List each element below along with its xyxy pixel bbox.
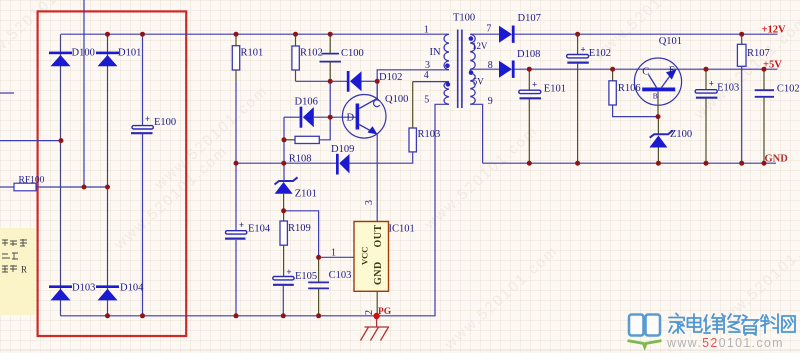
svg-text:9: 9: [488, 96, 493, 107]
svg-text:D108: D108: [517, 49, 540, 60]
primary winding IN pins 1-3: [444, 34, 449, 70]
svg-text:R103: R103: [418, 129, 441, 140]
wire: D100 column: [60, 34, 62, 316]
logo title char 1 jia: [669, 314, 684, 334]
transistor Q100: [342, 81, 408, 138]
svg-text:+: +: [581, 44, 586, 54]
svg-text:B: B: [653, 92, 658, 101]
svg-text:C: C: [642, 66, 649, 77]
secondary 5V winding: [470, 69, 475, 104]
resistor R107: [737, 34, 769, 163]
capacitor E102: [567, 34, 611, 163]
capacitor C100: [320, 34, 364, 81]
svg-text:www.520101.com: www.520101.com: [151, 82, 272, 193]
svg-text:www.520101.com: www.520101.com: [441, 242, 562, 353]
svg-text:GND: GND: [373, 261, 384, 285]
svg-text:D106: D106: [295, 96, 318, 107]
svg-text:E102: E102: [589, 48, 611, 59]
logo title char 3 wei: [704, 314, 724, 333]
diode D106: [295, 96, 318, 127]
svg-text:C100: C100: [341, 48, 364, 59]
diode D103: [49, 283, 95, 301]
svg-text:7: 7: [486, 24, 491, 35]
diode D101: [96, 48, 141, 67]
svg-text:5: 5: [424, 95, 429, 106]
svg-text:R107: R107: [747, 48, 770, 59]
diode D100: [49, 48, 95, 67]
svg-text:Q101: Q101: [659, 36, 682, 47]
wire: AC line to D100 column: [0, 140, 61, 142]
wire: rail y163 left part: [236, 162, 336, 164]
wire: D101 column: [107, 34, 109, 316]
svg-text:PG: PG: [378, 307, 392, 317]
svg-text:+: +: [532, 79, 537, 89]
svg-text:D109: D109: [331, 144, 354, 155]
svg-text:IN: IN: [430, 47, 441, 58]
capacitor E105: [273, 267, 317, 316]
logo title char 2 dian: [688, 314, 703, 332]
wire: C100 column down to D106 node and R108: [319, 81, 330, 140]
wire: pin9 down to GND rail: [470, 104, 482, 163]
svg-text:+: +: [239, 220, 244, 230]
wire: D109 to R103: [350, 152, 413, 163]
resistor RF100: [14, 183, 36, 191]
svg-text:OUT: OUT: [373, 224, 384, 247]
svg-text:D101: D101: [118, 48, 141, 59]
wire: +5V rail: [515, 68, 778, 70]
note text line 1: [2, 239, 27, 246]
svg-text:Z101: Z101: [295, 189, 317, 200]
wire: left column x284 down to Z101: [283, 117, 285, 180]
svg-text:VCC: VCC: [360, 247, 370, 265]
svg-text:R102: R102: [300, 47, 323, 58]
wire: E100 column: [142, 34, 144, 125]
transformer T100: [424, 13, 493, 108]
logo title char 5 zi: [742, 315, 758, 335]
svg-text:IC101: IC101: [389, 224, 415, 235]
transformer core: [457, 30, 459, 109]
polarity dots: [445, 63, 450, 68]
svg-text:GND: GND: [765, 153, 789, 164]
resistor R102: [292, 34, 323, 81]
ground PG symbol: [361, 316, 390, 341]
capacitor C103: [308, 257, 351, 316]
svg-text:D: D: [347, 112, 355, 123]
svg-text:R101: R101: [241, 47, 264, 58]
svg-text:E104: E104: [248, 224, 271, 235]
capacitor E104: [225, 163, 271, 316]
logo title char 6 liao: [761, 314, 778, 333]
zener Z100: [649, 117, 692, 164]
resistor R108: [284, 136, 319, 164]
zener Z101: [275, 177, 317, 221]
logo title char 4 xiu: [722, 314, 740, 333]
wire: bottom return rail: [61, 104, 449, 315]
svg-text:1: 1: [331, 248, 336, 259]
wire: left stub: [0, 92, 14, 94]
wire: base wire to Q100: [330, 116, 356, 118]
wire: GND rail: [483, 162, 776, 164]
wire: pin8 to D108: [470, 68, 499, 70]
resistor R103: [409, 82, 440, 152]
resistor R101: [232, 34, 263, 163]
svg-text:C102: C102: [777, 83, 800, 94]
diode D102: [347, 71, 403, 92]
svg-text:www.520101.com: www.520101.com: [666, 336, 784, 350]
svg-text:E105: E105: [295, 271, 317, 282]
svg-text:E103: E103: [717, 83, 739, 94]
svg-text:T100: T100: [453, 13, 475, 24]
wire: D106 leads: [284, 116, 300, 118]
junction dots right: [575, 32, 580, 37]
svg-text:+: +: [286, 267, 291, 277]
wire: Q100 emitter down to IC pin3: [376, 134, 378, 222]
diode D108: [499, 49, 540, 78]
wire: +12V rail: [515, 33, 778, 35]
bottom hairline: [0, 349, 800, 351]
svg-text:+: +: [145, 114, 150, 124]
note text line 3: [2, 265, 17, 272]
svg-text:Z100: Z100: [670, 129, 692, 140]
diode D109: [331, 144, 354, 175]
logo title char 7 wang: [782, 316, 795, 332]
wire: Q101 base down: [657, 91, 659, 116]
svg-text:12V: 12V: [472, 41, 488, 51]
wire: snubber bottom y81: [296, 80, 348, 82]
wire: Z101 node to IC pin1: [284, 211, 354, 257]
svg-text:www.520101.com: www.520101.com: [111, 142, 232, 253]
secondary 12V winding: [470, 34, 475, 69]
svg-text:2: 2: [364, 310, 375, 315]
wire: mains top rail to transformer pin1: [61, 33, 449, 35]
wire: D102 anode up to pin3: [377, 70, 449, 82]
resistor R109: [280, 221, 311, 277]
logo book icon: [628, 315, 662, 348]
resistor R106: [609, 69, 658, 116]
wire: pin7 to D107: [470, 33, 499, 35]
svg-text:3: 3: [364, 200, 375, 205]
capacitor E101: [519, 69, 566, 163]
wire: pin4: [413, 81, 449, 83]
capacitor C102: [755, 69, 800, 163]
svg-text:Q100: Q100: [385, 94, 408, 105]
diode D104: [96, 283, 144, 301]
svg-text:RF100: RF100: [19, 176, 45, 186]
svg-text:E: E: [669, 65, 675, 76]
svg-text:R109: R109: [288, 223, 311, 234]
diode D107: [499, 13, 541, 43]
junction dots left section: [105, 32, 110, 37]
wire: vertical input line crossing top: [83, 0, 85, 187]
junction dots middle: [234, 32, 239, 37]
feedback winding pins 4-5: [444, 82, 449, 105]
svg-text:D103: D103: [72, 283, 95, 294]
svg-text:D104: D104: [120, 283, 144, 294]
red selection box: [38, 11, 187, 336]
svg-text:D107: D107: [518, 13, 541, 24]
svg-text:R: R: [21, 265, 27, 275]
capacitor E103: [695, 69, 739, 163]
svg-text:D102: D102: [379, 72, 402, 83]
IC U1 IC101: [354, 222, 415, 292]
svg-text:C103: C103: [329, 270, 352, 281]
svg-text:E100: E100: [154, 117, 176, 128]
wire: IC pin2 down: [376, 291, 378, 316]
yellow note box: [0, 228, 35, 315]
svg-text:+12V: +12V: [762, 24, 786, 35]
note text line 2: [2, 253, 18, 259]
svg-text:+: +: [709, 78, 714, 88]
svg-text:1: 1: [424, 25, 429, 36]
transistor Q101: [634, 36, 682, 105]
svg-text:E101: E101: [544, 83, 566, 94]
svg-text:5V: 5V: [473, 76, 485, 86]
capacitor E100: [131, 114, 176, 133]
wire: RF100 line: [0, 186, 14, 188]
svg-text:4: 4: [424, 70, 429, 81]
svg-text:D100: D100: [72, 48, 95, 59]
